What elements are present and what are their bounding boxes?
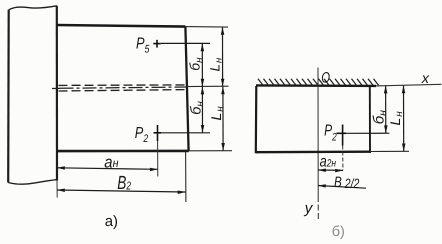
dimension line a2n (fig b) <box>318 169 343 173</box>
centre line tick across wall edge <box>52 87 60 89</box>
leader line from P5 to bn dimension <box>161 42 210 44</box>
y-axis (fig b) <box>317 68 319 197</box>
plate bottom edge extension (thin, right, fig b) <box>370 150 409 152</box>
dimension line bn upper (fig a) <box>201 43 205 86</box>
dimension line Ln lower (fig a) <box>221 87 225 151</box>
svg-text:O: O <box>321 69 330 86</box>
svg-text:x: x <box>421 71 430 87</box>
wall (fixed support, fig a) <box>8 6 57 184</box>
svg-text:а): а) <box>105 213 118 230</box>
dimension line bn (fig b) <box>384 86 388 134</box>
dimension line an (fig a) <box>57 166 158 171</box>
plate right edge extension line down (for B2 dimension) <box>185 152 187 203</box>
clamped edge line / x-axis (fig b) <box>256 84 376 87</box>
clamped edge hatching (fig b) <box>258 79 379 86</box>
P2 extension line down to an dimension (fig a) <box>157 141 159 177</box>
dimension line Ln upper (fig a) <box>221 27 225 87</box>
P2 extension line down to a2n dimension (fig b) <box>342 146 344 171</box>
leader line from P2 to bn dimension (fig a) <box>161 132 210 134</box>
mid-surface dashed line lower <box>59 90 187 91</box>
plate top edge extension line (thin, right) <box>185 26 228 29</box>
plate outline (fig b) <box>256 86 370 154</box>
force point P2 cross marker (fig a) <box>154 125 162 141</box>
svg-text:aн: aн <box>104 153 119 171</box>
svg-text:у: у <box>304 200 314 217</box>
svg-text:б): б) <box>332 224 345 240</box>
force point P5 cross marker <box>153 40 161 48</box>
mid-surface centre line (dash-dot) <box>60 87 187 88</box>
plate bottom edge extension line (thin, right) <box>189 150 232 152</box>
force point P2 cross marker (fig b) <box>337 125 347 146</box>
dimension line Ln (fig b) <box>402 86 406 152</box>
dimension line bn lower (fig a) <box>201 87 205 133</box>
plate outline (fig a) <box>57 25 189 151</box>
centre line extension (thin, right) <box>186 85 229 87</box>
mid-surface dashed line upper <box>59 84 187 87</box>
leader line from P2 to bn dimension (fig b) <box>346 132 389 134</box>
svg-text:В 2/2: В 2/2 <box>334 174 360 191</box>
dimension line B2/2 (fig b) <box>318 184 366 188</box>
dimension line B2 (fig a) <box>57 189 186 195</box>
wall right edge extension line below (for B2 dimension) <box>56 181 58 198</box>
